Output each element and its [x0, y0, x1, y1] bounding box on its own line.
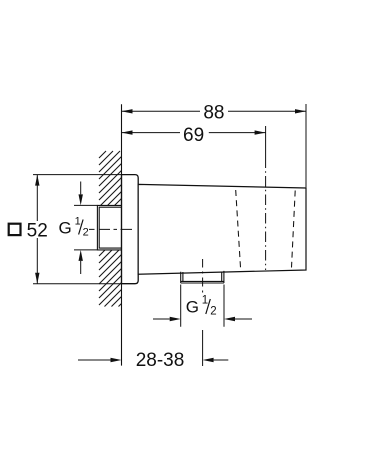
svg-text:G: G — [59, 218, 72, 237]
svg-text:69: 69 — [183, 125, 204, 146]
square symbol — [9, 224, 21, 235]
dim 88 line — [122, 110, 307, 112]
svg-text:28-38: 28-38 — [136, 350, 185, 371]
outlet thread extension lines — [181, 285, 224, 327]
svg-text:G: G — [186, 298, 199, 317]
cup centerline / 69 extension line — [265, 126, 267, 158]
holder body — [138, 184, 306, 274]
wall hatching — [99, 151, 122, 307]
svg-text:2: 2 — [210, 306, 216, 318]
svg-text:2: 2 — [83, 226, 89, 238]
dim 52 line — [36, 175, 38, 284]
G1/2 wall socket — [97, 205, 121, 250]
hidden edge (cup front) — [292, 191, 296, 268]
G1/2 socket arrows — [80, 182, 82, 275]
G1/2 socket extension lines — [74, 205, 97, 250]
outlet centerline — [202, 259, 204, 293]
socket centerline — [89, 228, 132, 230]
flange plate — [122, 175, 139, 284]
wall face / left extension line — [121, 104, 123, 365]
dim 88 extension right — [305, 104, 307, 187]
dim 28-38 arrows — [78, 359, 228, 361]
svg-text:88: 88 — [203, 102, 224, 123]
hidden edge (cup rear) — [236, 190, 241, 269]
dim 69 line — [122, 132, 266, 134]
svg-text:1: 1 — [202, 294, 208, 306]
dim 52 extension lines — [33, 175, 122, 284]
svg-text:52: 52 — [27, 220, 48, 241]
outlet G1/2 arrows — [153, 318, 252, 320]
outlet stub — [181, 271, 224, 283]
svg-text:1: 1 — [75, 216, 81, 228]
outlet centerline lower solid — [202, 330, 204, 366]
